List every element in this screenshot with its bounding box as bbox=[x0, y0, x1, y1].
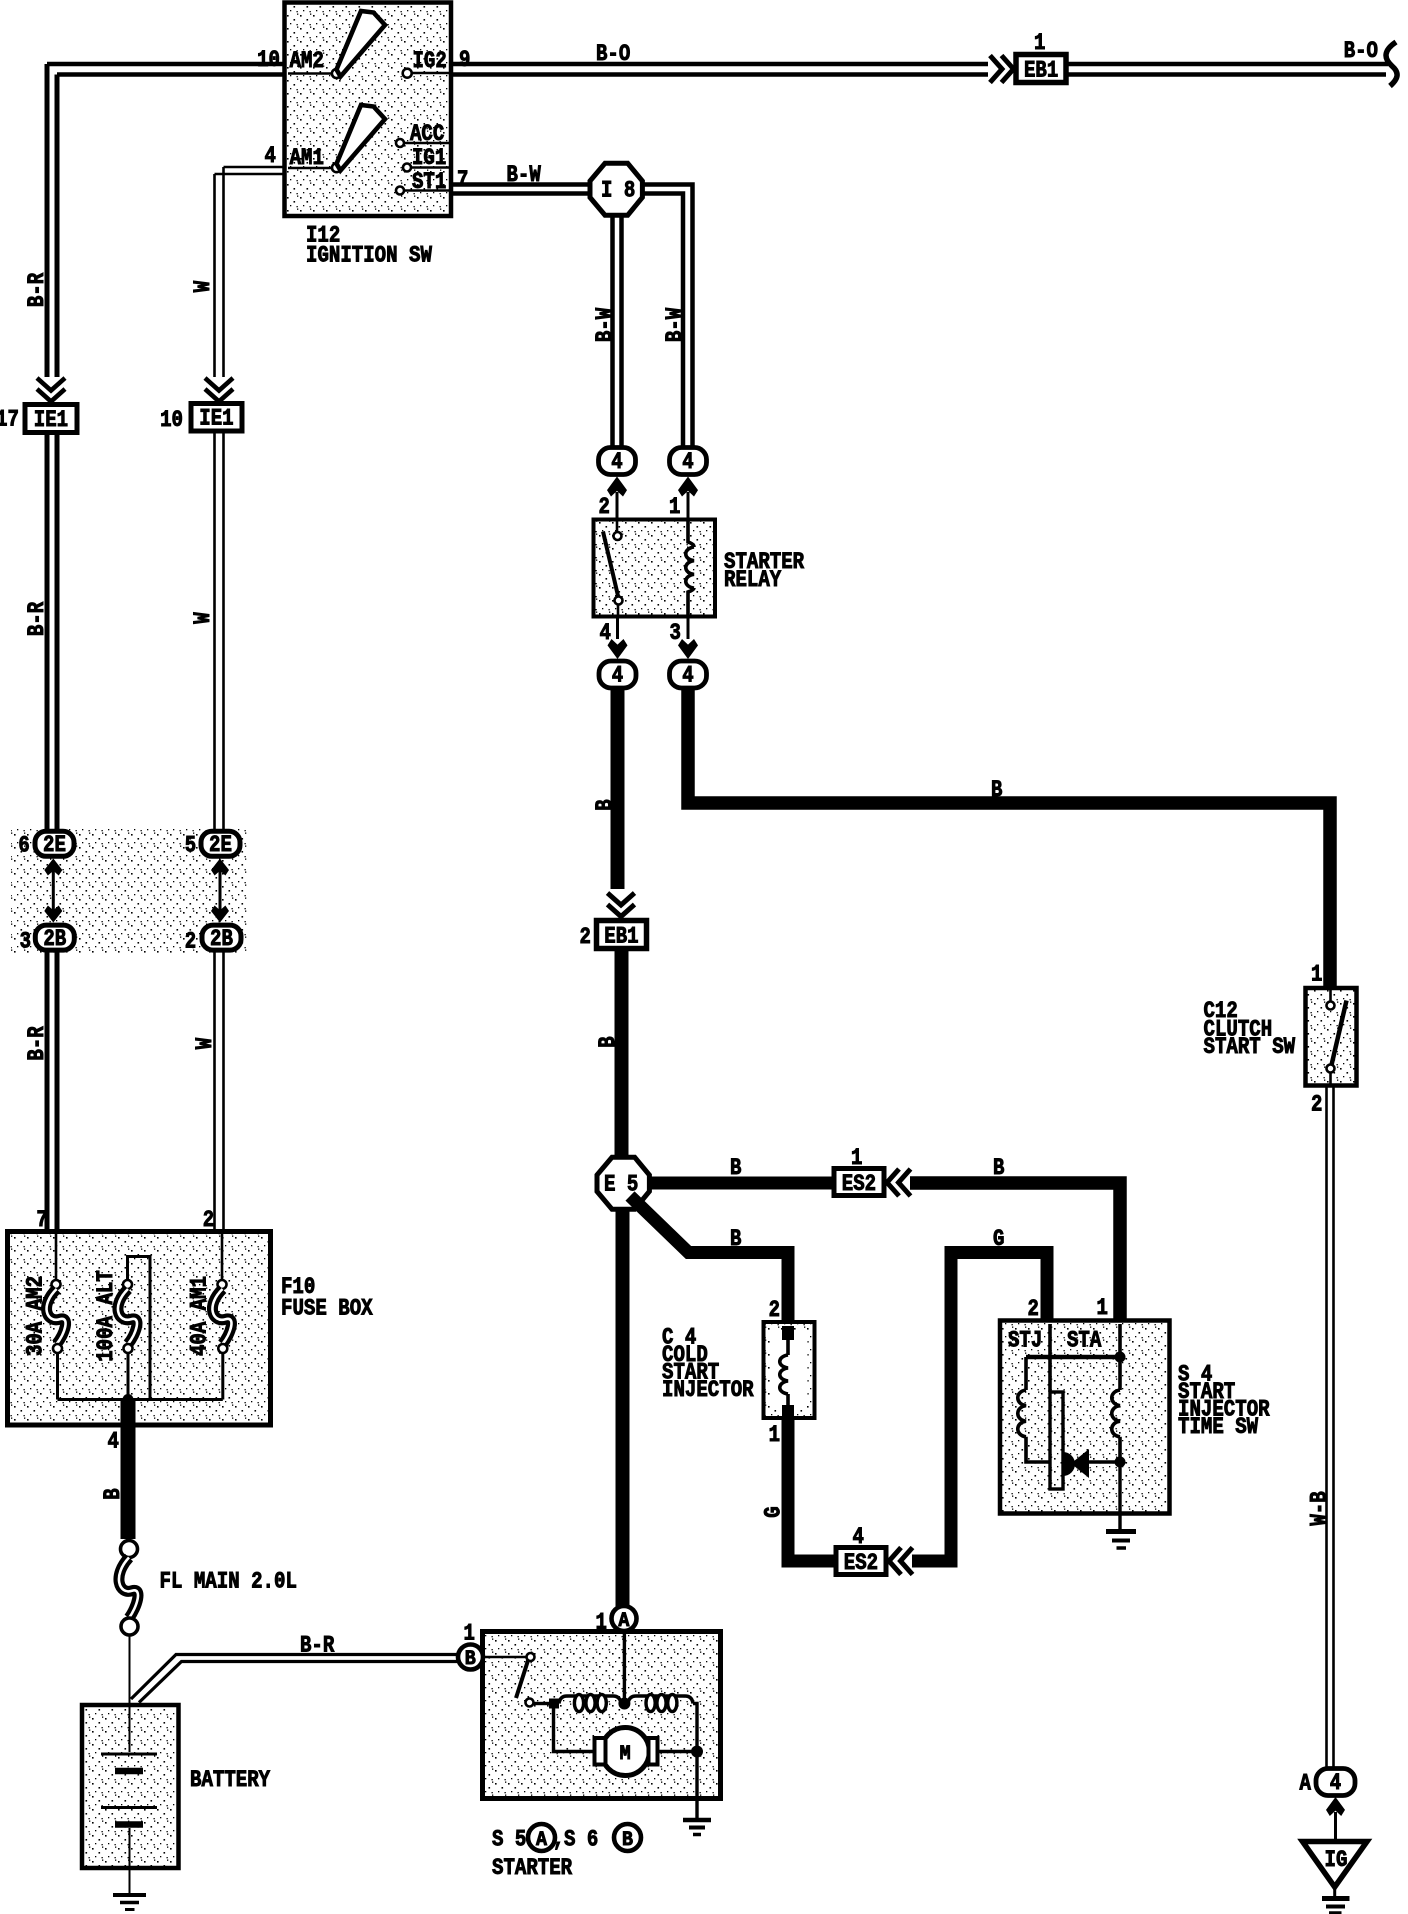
svg-text:4: 4 bbox=[265, 143, 277, 169]
connector band 2E/2B bbox=[11, 829, 247, 953]
svg-text:B-W: B-W bbox=[662, 308, 688, 342]
wire B fuse box pin4 to FL main bbox=[121, 1400, 136, 1539]
svg-text:W: W bbox=[190, 612, 216, 624]
wire B-W below I8 down to connector bbox=[613, 215, 622, 448]
svg-text:2: 2 bbox=[185, 929, 196, 955]
svg-text:ST1: ST1 bbox=[412, 169, 446, 195]
connector ES2 pin1 bbox=[834, 1169, 884, 1196]
S4 STJ coil bbox=[1024, 1357, 1028, 1390]
arrow into connector bbox=[607, 477, 627, 497]
svg-text:B-O: B-O bbox=[1344, 38, 1378, 64]
wire B-W right of I8, corner down bbox=[642, 185, 693, 449]
connector 4 (lower right) bbox=[670, 661, 707, 688]
svg-text:ES2: ES2 bbox=[844, 1550, 878, 1576]
svg-text:B: B bbox=[592, 799, 618, 811]
svg-text:5: 5 bbox=[185, 833, 196, 859]
svg-text:4: 4 bbox=[612, 663, 624, 689]
connector 4 (upper left) bbox=[599, 448, 636, 475]
arrows between 2E and 2B right bbox=[219, 866, 222, 916]
relay switch contact bbox=[616, 519, 619, 532]
svg-text:B-R: B-R bbox=[300, 1633, 334, 1659]
connector 4 (upper right) bbox=[670, 448, 707, 475]
starter motor M bbox=[554, 1709, 596, 1752]
svg-text:A: A bbox=[1300, 1771, 1312, 1797]
svg-text:2: 2 bbox=[580, 924, 591, 950]
svg-text:INJECTOR: INJECTOR bbox=[662, 1377, 754, 1403]
wire relay pin2 bbox=[616, 492, 619, 519]
svg-text:B: B bbox=[100, 1488, 126, 1500]
svg-text:17: 17 bbox=[0, 407, 19, 433]
svg-text:,: , bbox=[553, 1827, 564, 1853]
S4 thermal contact bbox=[1087, 1460, 1120, 1463]
svg-text:2: 2 bbox=[599, 494, 610, 520]
svg-text:IG1: IG1 bbox=[412, 145, 446, 171]
starter terminal A bbox=[612, 1606, 637, 1631]
svg-text:4: 4 bbox=[682, 449, 694, 475]
svg-text:AM2: AM2 bbox=[290, 48, 324, 74]
connector 4 (lower left) bbox=[599, 661, 636, 688]
fuse 30A AM2 bbox=[55, 1234, 58, 1280]
svg-text:I 8: I 8 bbox=[601, 178, 635, 204]
fuse box F10 box bbox=[8, 1232, 271, 1426]
fuse 40A AM1 bbox=[221, 1234, 224, 1280]
svg-text:4: 4 bbox=[611, 449, 623, 475]
svg-text:2: 2 bbox=[203, 1207, 214, 1233]
wire G from ES2-4 up over to S4 STJ pin2 bbox=[912, 1253, 1047, 1562]
connector 2E pin6 bbox=[35, 831, 74, 856]
svg-text:B-R: B-R bbox=[24, 602, 50, 636]
svg-text:1: 1 bbox=[464, 1621, 475, 1647]
svg-text:IG: IG bbox=[1325, 1847, 1348, 1873]
svg-text:STJ: STJ bbox=[1008, 1328, 1042, 1354]
svg-text:B: B bbox=[622, 1829, 633, 1852]
svg-text:1: 1 bbox=[596, 1610, 607, 1636]
S4 inner bus bbox=[1026, 1355, 1120, 1360]
arrow down bbox=[678, 639, 698, 659]
wire relay pin3 bbox=[687, 617, 690, 640]
svg-text:1: 1 bbox=[1311, 962, 1322, 988]
svg-text:W: W bbox=[192, 1038, 218, 1050]
wire B-W from ST1 to junction I8 bbox=[451, 185, 591, 194]
fusible link FL MAIN 2.0L bbox=[121, 1541, 138, 1558]
continuation hook at right edge bbox=[1386, 42, 1397, 86]
connector 2E pin5 bbox=[201, 831, 240, 856]
connector IE1 pin17 bbox=[25, 405, 77, 433]
starter A lead bbox=[623, 1631, 626, 1704]
svg-text:AM1: AM1 bbox=[290, 145, 324, 171]
svg-text:IGNITION SW: IGNITION SW bbox=[306, 243, 432, 269]
ignition sw IG1 terminal bbox=[403, 164, 411, 172]
svg-text:2B: 2B bbox=[43, 926, 66, 952]
svg-text:B-W: B-W bbox=[592, 308, 618, 342]
starter ground bbox=[695, 1752, 698, 1819]
ignition sw AM2 terminal bbox=[288, 72, 331, 75]
svg-text:7: 7 bbox=[36, 1207, 47, 1233]
svg-text:2: 2 bbox=[769, 1297, 780, 1323]
svg-text:B-R: B-R bbox=[24, 273, 50, 307]
wire B from ES2 to S4 STA pin1 bbox=[910, 1183, 1120, 1321]
svg-text:B-O: B-O bbox=[596, 41, 630, 67]
svg-text:4: 4 bbox=[600, 620, 612, 646]
wire W-B from C12 down bbox=[1327, 1086, 1334, 1769]
svg-text:4: 4 bbox=[682, 663, 694, 689]
wire B-R from battery to starter B bbox=[131, 1655, 458, 1703]
svg-text:40A AM1: 40A AM1 bbox=[187, 1276, 213, 1356]
S4 bimetal strip bbox=[1050, 1392, 1063, 1489]
connector ES2 pin4 bbox=[836, 1548, 886, 1575]
node I 8 octagon bbox=[590, 163, 642, 215]
S4 ground bbox=[1118, 1462, 1121, 1529]
ignition sw AM1 lever bbox=[337, 105, 386, 171]
svg-text:B-W: B-W bbox=[507, 162, 541, 188]
ignition sw AM2 lever bbox=[337, 11, 386, 77]
svg-text:B: B bbox=[595, 1036, 621, 1048]
start injector time sw S4 box bbox=[1000, 1321, 1170, 1514]
battery plates bbox=[129, 1705, 131, 1752]
connector 2B pin3 bbox=[35, 925, 74, 950]
svg-text:TIME SW: TIME SW bbox=[1178, 1414, 1258, 1440]
svg-text:6: 6 bbox=[18, 833, 29, 859]
svg-text:ES2: ES2 bbox=[842, 1171, 876, 1197]
svg-text:4: 4 bbox=[108, 1429, 120, 1455]
wire relay pin1 bbox=[687, 492, 690, 519]
starter box bbox=[483, 1632, 721, 1799]
arrow into connector bbox=[678, 477, 698, 497]
svg-text:1: 1 bbox=[1097, 1295, 1108, 1321]
connector A 4 oval bbox=[1316, 1769, 1355, 1796]
wire B thick from E5 down to starter bbox=[616, 1208, 630, 1607]
svg-text:10: 10 bbox=[257, 47, 280, 73]
svg-text:2B: 2B bbox=[210, 926, 233, 952]
wire B thick from relay pin3 connector, right to clutch sw bbox=[688, 687, 1330, 988]
ignition sw AM1 terminal bbox=[288, 167, 331, 170]
svg-text:A: A bbox=[618, 1610, 629, 1633]
connector EB1 top bbox=[1016, 55, 1066, 83]
svg-text:STA: STA bbox=[1067, 1328, 1101, 1354]
wire B-O right of EB1 to edge bbox=[1067, 64, 1389, 75]
svg-text:1: 1 bbox=[769, 1422, 780, 1448]
svg-text:B: B bbox=[465, 1648, 476, 1671]
wire B-O right rail from IG2 to EB1 bbox=[451, 64, 988, 75]
starter field coil 1 bbox=[559, 1696, 621, 1704]
svg-text:W: W bbox=[190, 281, 216, 293]
wire B-O from AM2 to IG2 top rail, left corner bbox=[47, 64, 285, 75]
connector EB1 (engine) bbox=[597, 921, 647, 949]
svg-text:W-B: W-B bbox=[1307, 1491, 1333, 1525]
svg-text:B: B bbox=[730, 1226, 742, 1252]
arrow down bbox=[608, 639, 628, 659]
svg-text:7: 7 bbox=[457, 167, 468, 193]
battery ground bbox=[129, 1868, 131, 1893]
arrows between 2E and 2B left bbox=[52, 866, 55, 916]
svg-text:30A AM2: 30A AM2 bbox=[23, 1276, 49, 1356]
svg-text:BATTERY: BATTERY bbox=[190, 1767, 270, 1793]
starter terminal B bbox=[458, 1645, 483, 1670]
starter switch bbox=[483, 1656, 526, 1659]
arrow dbl left at ES2-4 bbox=[889, 1548, 901, 1575]
svg-text:EB1: EB1 bbox=[604, 924, 638, 950]
wire G from C4 pin1 to ES2 bbox=[788, 1417, 836, 1561]
svg-text:B-R: B-R bbox=[24, 1026, 50, 1060]
connector IE1 pin10 bbox=[191, 404, 242, 432]
svg-text:1: 1 bbox=[851, 1145, 862, 1171]
arrow up into A4 bbox=[1326, 1797, 1345, 1816]
svg-text:EB1: EB1 bbox=[1024, 58, 1058, 84]
wire B from E5 to ES2 bbox=[648, 1177, 834, 1190]
injector C4 coil bbox=[782, 1326, 794, 1340]
wire B thick from relay pin4 connector down bbox=[611, 687, 625, 889]
ignition switch I12 box bbox=[285, 3, 452, 217]
node E 5 octagon bbox=[597, 1157, 649, 1209]
svg-text:IG2: IG2 bbox=[413, 48, 447, 74]
arrow dbl left at ES2 bbox=[887, 1169, 899, 1196]
svg-text:B: B bbox=[730, 1155, 742, 1181]
svg-text:2: 2 bbox=[1311, 1092, 1322, 1118]
wire B-R vertical drop left bbox=[47, 64, 57, 377]
svg-text:3: 3 bbox=[20, 929, 31, 955]
svg-text:2E: 2E bbox=[43, 832, 66, 858]
svg-text:ACC: ACC bbox=[410, 121, 444, 147]
svg-text:1: 1 bbox=[1034, 30, 1045, 56]
ignition sw ACC terminal bbox=[396, 139, 404, 147]
fuse 100A ALT bbox=[128, 1257, 151, 1400]
svg-text:S 5: S 5 bbox=[492, 1827, 526, 1853]
ignition sw IG2 terminal bbox=[403, 69, 412, 78]
ignition sw ST1 terminal bbox=[396, 187, 404, 195]
arrow dbl down into IE1 (B-R) bbox=[37, 378, 65, 391]
S4 inner: pin1 lead bbox=[1118, 1324, 1122, 1357]
svg-text:FL MAIN 2.0L: FL MAIN 2.0L bbox=[160, 1569, 297, 1595]
svg-text:9: 9 bbox=[459, 47, 470, 73]
wire B thick from EB1 to node E5 bbox=[615, 949, 629, 1159]
wire relay pin4 bbox=[616, 617, 619, 640]
svg-text:2E: 2E bbox=[209, 832, 232, 858]
arrow dbl right into EB1 bbox=[990, 56, 1002, 83]
wire W from AM1, horizontal + vertical drop bbox=[215, 167, 285, 174]
svg-text:G: G bbox=[761, 1506, 787, 1517]
fuse box internal bus bbox=[58, 1398, 223, 1401]
ground triangle IG bbox=[1303, 1842, 1368, 1888]
cold start injector C4 box bbox=[764, 1322, 815, 1418]
svg-text:4: 4 bbox=[853, 1524, 865, 1550]
svg-text:START SW: START SW bbox=[1204, 1034, 1296, 1060]
svg-text:B: B bbox=[991, 777, 1003, 803]
svg-text:1: 1 bbox=[669, 494, 680, 520]
svg-text:STARTER: STARTER bbox=[492, 1855, 572, 1881]
arrow dbl down into IE1 (W) bbox=[205, 378, 233, 391]
svg-text:100A ALT: 100A ALT bbox=[93, 1270, 119, 1362]
svg-text:A: A bbox=[536, 1829, 547, 1852]
S4 STA coil bbox=[1118, 1357, 1122, 1390]
svg-text:4: 4 bbox=[1330, 1770, 1342, 1796]
svg-text:B: B bbox=[993, 1155, 1005, 1181]
C12 switch bbox=[1329, 990, 1332, 1001]
connector 2B pin2 bbox=[202, 925, 241, 950]
svg-text:RELAY: RELAY bbox=[724, 567, 781, 593]
svg-text:IE1: IE1 bbox=[199, 406, 233, 432]
relay coil bbox=[688, 519, 694, 547]
arrow into EB1 bbox=[608, 893, 635, 905]
wire B diagonal from E5 to C4 pin 2 bbox=[630, 1196, 788, 1323]
clutch start sw C12 box bbox=[1306, 988, 1357, 1086]
S4 inner: pin2 lead to bimetal bbox=[1048, 1324, 1052, 1392]
svg-text:2: 2 bbox=[1028, 1296, 1039, 1322]
svg-text:IE1: IE1 bbox=[34, 407, 68, 433]
svg-text:G: G bbox=[993, 1226, 1004, 1252]
svg-text:3: 3 bbox=[670, 620, 681, 646]
starter field coil 2 bbox=[628, 1696, 693, 1704]
svg-text:FUSE BOX: FUSE BOX bbox=[281, 1296, 373, 1322]
svg-text:10: 10 bbox=[160, 407, 183, 433]
starter relay box bbox=[594, 520, 716, 617]
battery box bbox=[82, 1705, 179, 1868]
svg-text:S 6: S 6 bbox=[564, 1827, 598, 1853]
svg-text:M: M bbox=[620, 1743, 631, 1766]
